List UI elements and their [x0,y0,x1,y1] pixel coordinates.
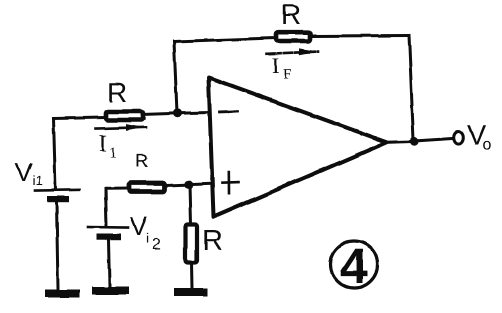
ground (Vi1) [45,290,80,298]
wire: node C to output terminal [418,139,453,141]
label RF value R [283,5,300,24]
wire: Vi2 vertical to battery top [106,189,107,226]
wire: feedback right vertical down to output node [409,36,414,141]
label I1 [100,135,106,151]
resistor R3 (to ground) [186,225,198,263]
ground (R3) [174,288,208,296]
wire: Vi1 battery to ground [57,203,59,290]
label R1 value R [109,83,126,102]
resistor R1 (input, inverting) [106,112,144,121]
label IF [273,58,279,73]
node C junction dot [410,137,419,146]
wire: feedback top horizontal right [313,34,409,38]
op-amp U1 triangle [209,78,388,218]
resistor R2 (input, non-inverting) [130,183,165,192]
output terminal circle [454,132,464,145]
label R2 value R [137,154,148,167]
wire: R3 to ground [190,263,194,288]
current arrow I1 [96,124,146,131]
wire: Vi2 battery to ground [109,241,110,287]
node A junction dot [173,109,182,118]
op-amp non-inverting input plus sign [222,172,239,193]
wire: R1 to inverting input (node A) [142,113,209,115]
battery source Vi2 [88,227,128,240]
figure number circle 4 [331,241,378,288]
wire: feedback top horizontal left [174,38,275,42]
ground (Vi2) [92,287,129,295]
wire: R2 to non-inverting input (node B) [166,184,211,186]
label Vi2 [130,217,147,235]
wire: Vi2 to R2 left [106,189,130,199]
label R3 value R [204,230,221,250]
wire: op-amp output to node C [387,140,414,144]
wire: Vi1 branch vertical down to battery [54,119,56,191]
wire: node B down to R3 [190,185,191,224]
node B junction dot [185,180,194,189]
battery source Vi1 [35,190,79,202]
wire: Vi1 to R1 left [54,118,105,119]
resistor RF (feedback) [276,32,310,41]
current arrow IF [267,48,318,54]
wire: feedback left vertical [174,42,177,114]
label Vo [467,125,485,144]
label Vi1 [15,163,32,181]
op-amp inverting input minus sign [220,110,238,114]
